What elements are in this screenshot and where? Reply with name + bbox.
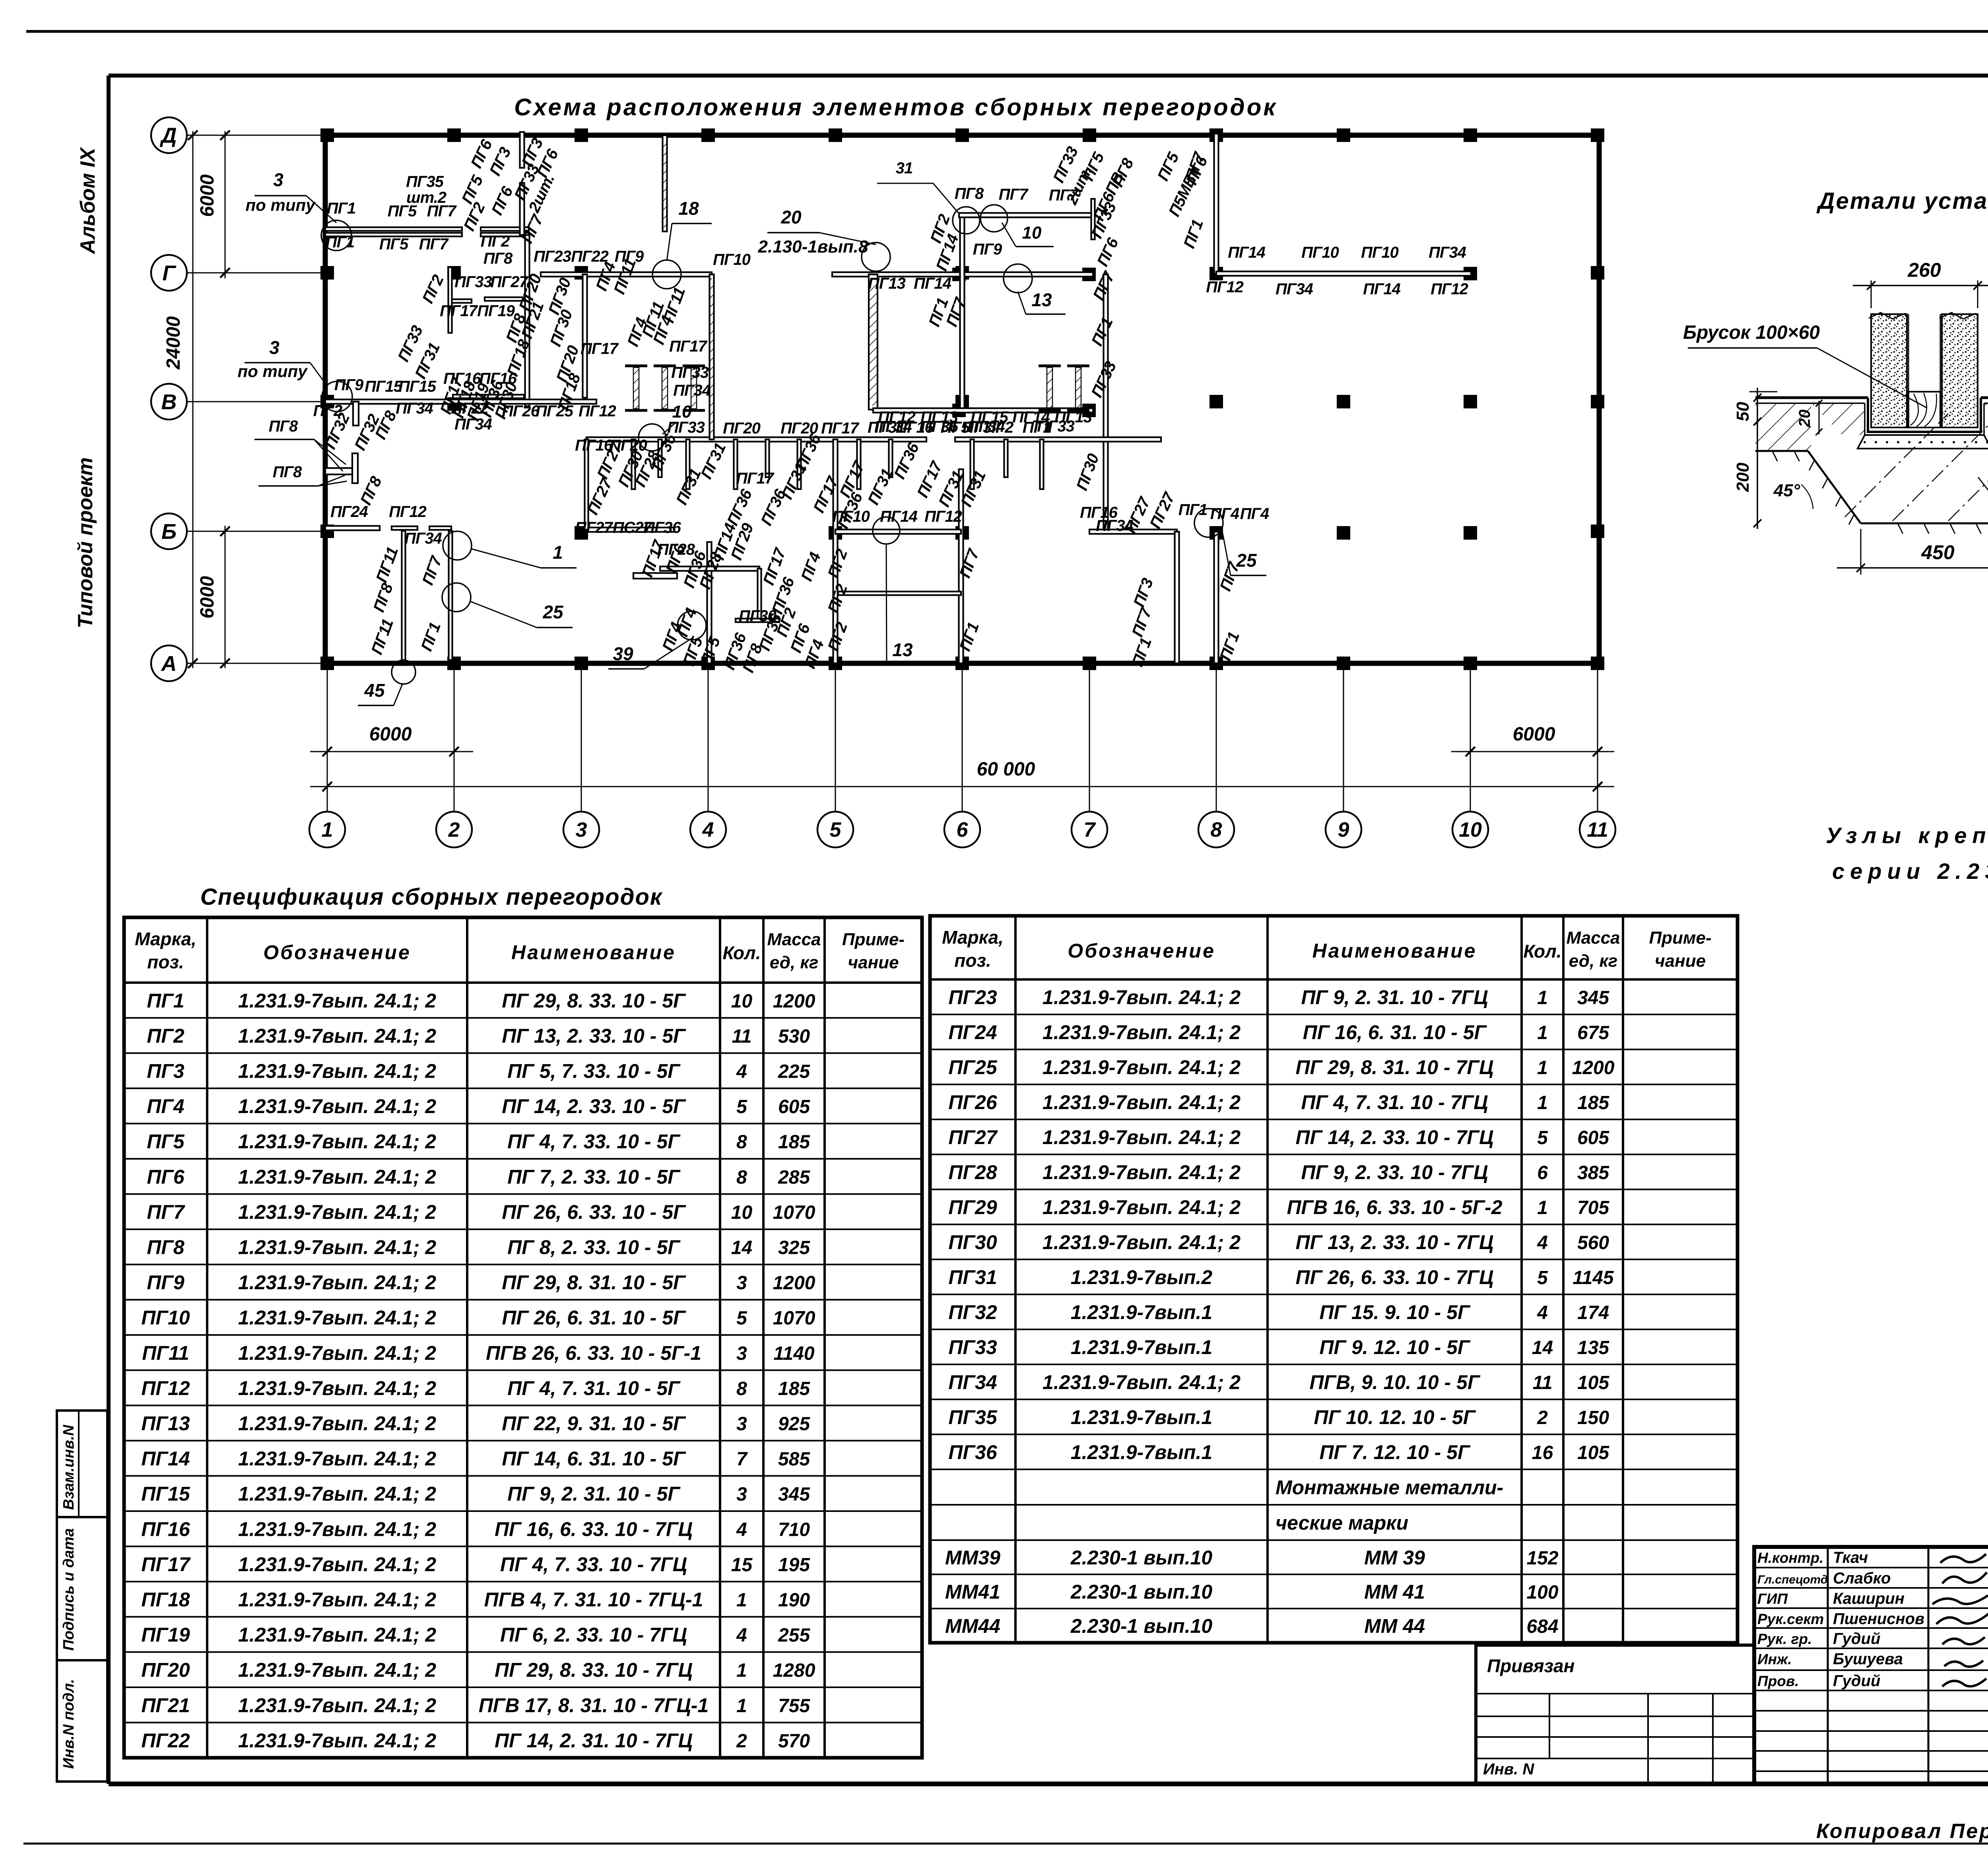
svg-text:ПГ14: ПГ14 xyxy=(1363,280,1401,298)
svg-text:Взам.инв.N: Взам.инв.N xyxy=(60,1424,77,1510)
svg-text:5: 5 xyxy=(1537,1127,1548,1148)
svg-text:ПГ27: ПГ27 xyxy=(948,1126,998,1148)
svg-text:ПГ23: ПГ23 xyxy=(534,248,571,265)
grid column circles 1..11 xyxy=(309,812,345,847)
svg-text:1.231.9-7вып. 24.1; 2: 1.231.9-7вып. 24.1; 2 xyxy=(238,1131,436,1153)
svg-text:ПГ8: ПГ8 xyxy=(147,1236,184,1259)
svg-text:1.231.9-7вып. 24.1; 2: 1.231.9-7вып. 24.1; 2 xyxy=(238,1483,436,1505)
svg-text:285: 285 xyxy=(778,1167,810,1188)
svg-text:7: 7 xyxy=(736,1449,748,1470)
svg-text:ПГ31: ПГ31 xyxy=(948,1266,997,1288)
svg-text:Альбом IX: Альбом IX xyxy=(76,146,99,255)
svg-text:Пров.: Пров. xyxy=(1757,1673,1799,1689)
svg-text:ПГ 7. 12. 10 - 5Г: ПГ 7. 12. 10 - 5Г xyxy=(1319,1441,1470,1463)
svg-text:шт.2: шт.2 xyxy=(406,189,447,206)
svg-text:1200: 1200 xyxy=(773,1273,815,1294)
svg-text:ПГ33: ПГ33 xyxy=(667,419,705,436)
svg-text:1.231.9-7вып. 24.1; 2: 1.231.9-7вып. 24.1; 2 xyxy=(238,1729,436,1752)
svg-text:ПГ12: ПГ12 xyxy=(1206,278,1244,296)
margin box: Инв.N подл. xyxy=(57,1660,107,1782)
svg-text:1: 1 xyxy=(1537,987,1548,1008)
svg-text:1.231.9-7вып.1: 1.231.9-7вып.1 xyxy=(1071,1441,1212,1463)
svg-text:ПГ7: ПГ7 xyxy=(419,235,449,253)
grid row extension lines xyxy=(187,135,325,136)
svg-text:13: 13 xyxy=(1031,289,1052,310)
svg-text:ПГ 14, 2. 33. 10 - 7ГЦ: ПГ 14, 2. 33. 10 - 7ГЦ xyxy=(1296,1126,1494,1148)
svg-text:ПГ 13, 2. 33. 10 - 7ГЦ: ПГ 13, 2. 33. 10 - 7ГЦ xyxy=(1296,1231,1494,1253)
svg-text:1.231.9-7вып. 24.1; 2: 1.231.9-7вып. 24.1; 2 xyxy=(238,1413,436,1435)
svg-text:ПГ12: ПГ12 xyxy=(141,1377,190,1399)
svg-text:ПГ9: ПГ9 xyxy=(973,241,1002,258)
svg-text:3: 3 xyxy=(736,1484,747,1505)
svg-text:ПГ28: ПГ28 xyxy=(948,1161,997,1183)
svg-text:8: 8 xyxy=(736,1132,747,1153)
svg-text:ПГ34: ПГ34 xyxy=(948,1371,997,1393)
svg-text:100: 100 xyxy=(1526,1582,1558,1603)
svg-text:6000: 6000 xyxy=(197,576,218,618)
svg-text:1140: 1140 xyxy=(773,1343,815,1364)
svg-text:ПГ29: ПГ29 xyxy=(948,1196,997,1218)
svg-text:Инж.: Инж. xyxy=(1757,1651,1792,1667)
svg-text:ПГ12: ПГ12 xyxy=(924,508,962,525)
svg-text:ческие марки: ческие марки xyxy=(1276,1512,1408,1534)
svg-text:ПГ12: ПГ12 xyxy=(1431,280,1468,298)
svg-text:ПГ 4, 7. 33. 10 - 5Г: ПГ 4, 7. 33. 10 - 5Г xyxy=(507,1131,681,1153)
svg-text:ПГ10: ПГ10 xyxy=(713,251,751,268)
svg-text:ПГ 29, 8. 31. 10 - 5Г: ПГ 29, 8. 31. 10 - 5Г xyxy=(502,1271,686,1294)
svg-text:ПГ1: ПГ1 xyxy=(147,989,184,1012)
svg-text:Бушуева: Бушуева xyxy=(1833,1650,1903,1668)
svg-text:11: 11 xyxy=(1587,818,1608,841)
svg-text:185: 185 xyxy=(778,1132,810,1153)
svg-text:ПГ4: ПГ4 xyxy=(147,1095,184,1117)
svg-text:Обозначение: Обозначение xyxy=(263,941,411,964)
svg-text:585: 585 xyxy=(778,1449,810,1470)
specification table 2 (PG23..MM44) xyxy=(930,916,1738,1643)
svg-text:6000: 6000 xyxy=(369,724,412,745)
bottom dimension 6000 (10-11) xyxy=(1451,751,1614,752)
svg-text:ГИП: ГИП xyxy=(1757,1591,1788,1607)
svg-text:105: 105 xyxy=(1577,1372,1609,1393)
svg-text:ПГ32: ПГ32 xyxy=(948,1301,997,1323)
svg-text:ПГ 26, 6. 33. 10 - 7ГЦ: ПГ 26, 6. 33. 10 - 7ГЦ xyxy=(1296,1266,1494,1288)
svg-text:Схема расположения элементов с: Схема расположения элементов сборных пер… xyxy=(514,94,1277,120)
svg-text:3: 3 xyxy=(273,169,283,190)
svg-text:Обозначение: Обозначение xyxy=(1068,940,1215,962)
svg-text:ПГ10: ПГ10 xyxy=(1301,244,1339,261)
svg-text:1.231.9-7вып. 24.1; 2: 1.231.9-7вып. 24.1; 2 xyxy=(238,1518,436,1540)
svg-text:1.231.9-7вып.1: 1.231.9-7вып.1 xyxy=(1071,1406,1212,1428)
svg-text:ММ 41: ММ 41 xyxy=(1364,1581,1425,1603)
svg-text:1.231.9-7вып. 24.1; 2: 1.231.9-7вып. 24.1; 2 xyxy=(1043,986,1241,1008)
svg-text:Типовой проект: Типовой проект xyxy=(74,457,97,628)
svg-text:200: 200 xyxy=(1733,462,1753,492)
svg-text:16: 16 xyxy=(1532,1442,1553,1463)
svg-text:1.231.9-7вып. 24.1; 2: 1.231.9-7вып. 24.1; 2 xyxy=(1043,1231,1241,1253)
svg-text:11: 11 xyxy=(1533,1372,1553,1393)
I-beam partition symbols xyxy=(625,365,647,367)
svg-text:5: 5 xyxy=(736,1096,747,1117)
svg-text:Копировал Перелыгина: Копировал Перелыгина xyxy=(1816,1820,1988,1843)
detail 1: partition on ground floor, 260 wide xyxy=(1733,259,1988,575)
svg-text:ПГ13: ПГ13 xyxy=(141,1413,190,1435)
svg-text:1: 1 xyxy=(553,542,563,563)
svg-text:ПГВ, 9. 10. 10 - 5Г: ПГВ, 9. 10. 10 - 5Г xyxy=(1309,1371,1480,1393)
svg-text:ПГ9: ПГ9 xyxy=(334,376,364,394)
svg-text:ПГ8: ПГ8 xyxy=(273,463,302,481)
svg-text:1.231.9-7вып. 24.1; 2: 1.231.9-7вып. 24.1; 2 xyxy=(1043,1126,1241,1148)
svg-text:1: 1 xyxy=(1537,1092,1548,1113)
svg-text:ПГ9: ПГ9 xyxy=(147,1271,184,1294)
svg-text:1070: 1070 xyxy=(773,1308,815,1329)
svg-text:385: 385 xyxy=(1577,1162,1609,1183)
svg-text:ММ 39: ММ 39 xyxy=(1364,1547,1425,1569)
svg-text:5: 5 xyxy=(736,1308,747,1329)
svg-text:Гудий: Гудий xyxy=(1833,1630,1880,1648)
svg-text:225: 225 xyxy=(778,1061,810,1082)
svg-text:1.231.9-7вып. 24.1; 2: 1.231.9-7вып. 24.1; 2 xyxy=(238,1624,436,1646)
svg-text:ПГ5: ПГ5 xyxy=(147,1131,185,1153)
svg-text:185: 185 xyxy=(1577,1092,1609,1113)
svg-text:ПГ33: ПГ33 xyxy=(1037,418,1075,435)
svg-text:ПГ 16, 6. 31. 10 - 5Г: ПГ 16, 6. 31. 10 - 5Г xyxy=(1303,1021,1487,1043)
svg-text:ПГ17: ПГ17 xyxy=(440,302,478,320)
svg-text:152: 152 xyxy=(1526,1548,1558,1569)
svg-text:Масса: Масса xyxy=(767,930,821,949)
svg-text:ПГ 29, 8. 33. 10 - 5Г: ПГ 29, 8. 33. 10 - 5Г xyxy=(502,989,686,1012)
svg-text:1.231.9-7вып. 24.1; 2: 1.231.9-7вып. 24.1; 2 xyxy=(1043,1091,1241,1113)
svg-text:24000: 24000 xyxy=(163,316,184,370)
svg-text:ПГ20: ПГ20 xyxy=(141,1659,190,1681)
tie-in box (Привязан) xyxy=(1476,1645,1754,1784)
svg-text:ПГ4: ПГ4 xyxy=(1210,505,1239,523)
svg-text:ПГ 4, 7. 31. 10 - 5Г: ПГ 4, 7. 31. 10 - 5Г xyxy=(507,1377,681,1399)
svg-text:6000: 6000 xyxy=(197,174,218,217)
svg-text:ПГ4: ПГ4 xyxy=(1240,505,1269,523)
svg-text:чание: чание xyxy=(848,953,899,972)
svg-text:190: 190 xyxy=(778,1590,810,1611)
svg-text:605: 605 xyxy=(778,1096,810,1117)
svg-text:ПГ33: ПГ33 xyxy=(671,364,709,381)
svg-text:ПГ34: ПГ34 xyxy=(404,530,442,547)
svg-text:ПГ17: ПГ17 xyxy=(669,338,708,355)
svg-text:135: 135 xyxy=(1577,1337,1609,1358)
svg-text:ПГ35: ПГ35 xyxy=(948,1406,997,1428)
svg-text:ММ39: ММ39 xyxy=(945,1547,1000,1569)
sheet top edge line xyxy=(26,30,1988,33)
svg-text:ПГВ 26, 6. 33. 10 - 5Г-1: ПГВ 26, 6. 33. 10 - 5Г-1 xyxy=(486,1342,701,1364)
svg-text:ПГ17: ПГ17 xyxy=(141,1553,190,1576)
svg-text:ПГ6: ПГ6 xyxy=(147,1166,185,1188)
svg-text:Кол.: Кол. xyxy=(722,942,761,963)
svg-text:Г: Г xyxy=(162,261,177,285)
margin box: Подпись и дата xyxy=(57,1517,107,1660)
svg-text:10: 10 xyxy=(1459,818,1482,841)
bottom dimension 60000 overall xyxy=(310,786,1614,787)
svg-text:2: 2 xyxy=(736,1731,747,1752)
svg-text:ПГ 8, 2. 33. 10 - 5Г: ПГ 8, 2. 33. 10 - 5Г xyxy=(507,1236,681,1259)
svg-text:ПГ8: ПГ8 xyxy=(269,418,298,435)
svg-text:1145: 1145 xyxy=(1573,1267,1614,1288)
svg-text:ПГ 13, 2. 33. 10 - 5Г: ПГ 13, 2. 33. 10 - 5Г xyxy=(502,1025,686,1047)
svg-text:ПГ 26, 6. 31. 10 - 5Г: ПГ 26, 6. 31. 10 - 5Г xyxy=(502,1307,686,1329)
svg-text:1.231.9-7вып.1: 1.231.9-7вып.1 xyxy=(1071,1336,1212,1358)
svg-text:18: 18 xyxy=(678,198,699,219)
svg-text:Д: Д xyxy=(160,124,177,148)
svg-text:Наименование: Наименование xyxy=(1312,940,1477,962)
left dimension chain 6000/24000 xyxy=(225,131,226,278)
svg-text:1: 1 xyxy=(1537,1197,1548,1218)
svg-text:ПГ12: ПГ12 xyxy=(389,503,427,521)
svg-text:ПГ15: ПГ15 xyxy=(141,1483,190,1505)
svg-text:поз.: поз. xyxy=(147,952,184,972)
svg-text:Брусок 100×60: Брусок 100×60 xyxy=(1683,322,1820,343)
svg-text:14: 14 xyxy=(1532,1337,1553,1358)
svg-text:45°: 45° xyxy=(1773,481,1800,500)
svg-text:Наименование: Наименование xyxy=(511,941,676,964)
svg-text:14: 14 xyxy=(731,1238,752,1259)
svg-text:ПГ35: ПГ35 xyxy=(406,173,444,190)
svg-text:ПГ2: ПГ2 xyxy=(481,233,510,250)
svg-text:ПГ3: ПГ3 xyxy=(147,1060,184,1082)
svg-text:710: 710 xyxy=(778,1519,810,1540)
svg-text:20: 20 xyxy=(1796,410,1813,428)
svg-text:1.231.9-7вып. 24.1; 2: 1.231.9-7вып. 24.1; 2 xyxy=(238,1307,436,1329)
svg-text:Гудий: Гудий xyxy=(1833,1672,1880,1690)
svg-text:ПГ10: ПГ10 xyxy=(1361,244,1399,261)
svg-text:925: 925 xyxy=(778,1414,810,1435)
svg-text:13: 13 xyxy=(892,639,913,660)
svg-text:1: 1 xyxy=(736,1590,747,1611)
svg-text:ПГ 29, 8. 31. 10 - 7ГЦ: ПГ 29, 8. 31. 10 - 7ГЦ xyxy=(1296,1056,1494,1078)
svg-text:1.231.9-7вып. 24.1; 2: 1.231.9-7вып. 24.1; 2 xyxy=(238,1095,436,1117)
svg-text:60 000: 60 000 xyxy=(977,759,1035,780)
svg-text:1.231.9-7вып.1: 1.231.9-7вып.1 xyxy=(1071,1301,1212,1323)
svg-text:1.231.9-7вып. 24.1; 2: 1.231.9-7вып. 24.1; 2 xyxy=(238,1271,436,1294)
svg-text:ед, кг: ед, кг xyxy=(770,953,818,972)
svg-text:ПГ26: ПГ26 xyxy=(948,1091,997,1113)
svg-text:ПГ24: ПГ24 xyxy=(330,503,368,521)
svg-text:6: 6 xyxy=(957,818,969,841)
svg-text:ПГ 9. 12. 10 - 5Г: ПГ 9. 12. 10 - 5Г xyxy=(1319,1336,1470,1358)
svg-text:ПГ1: ПГ1 xyxy=(327,200,356,217)
svg-text:ПГ 6, 2. 33. 10 - 7ГЦ: ПГ 6, 2. 33. 10 - 7ГЦ xyxy=(500,1624,687,1646)
svg-text:Ткач: Ткач xyxy=(1833,1549,1868,1566)
leader fans for PG8 labels xyxy=(254,439,314,440)
svg-text:ПГ26: ПГ26 xyxy=(502,402,540,420)
svg-text:ПГ30: ПГ30 xyxy=(948,1231,997,1253)
svg-text:755: 755 xyxy=(778,1695,810,1716)
svg-text:1: 1 xyxy=(736,1695,747,1716)
svg-text:4: 4 xyxy=(1537,1302,1548,1323)
svg-text:4: 4 xyxy=(736,1519,747,1540)
svg-text:1280: 1280 xyxy=(773,1660,815,1681)
svg-text:1.231.9-7вып. 24.1; 2: 1.231.9-7вып. 24.1; 2 xyxy=(238,1377,436,1399)
svg-text:Узлы крепления перегородок при: Узлы крепления перегородок приняты по xyxy=(1826,823,1988,848)
signatures (squiggles) xyxy=(1940,1554,1986,1563)
svg-text:Рук.сект: Рук.сект xyxy=(1757,1611,1824,1627)
sheet bottom edge line xyxy=(23,1843,1988,1845)
hatched wall faces xyxy=(709,278,714,435)
specification table 1 (PG1..PG22) xyxy=(124,917,922,1758)
svg-text:1070: 1070 xyxy=(773,1202,815,1223)
svg-text:ПГ13: ПГ13 xyxy=(868,275,906,292)
svg-text:ПГ17: ПГ17 xyxy=(580,340,619,358)
svg-text:1.231.9-7вып. 24.1; 2: 1.231.9-7вып. 24.1; 2 xyxy=(238,1447,436,1470)
svg-text:ПГ 14, 2. 33. 10 - 5Г: ПГ 14, 2. 33. 10 - 5Г xyxy=(502,1095,686,1117)
title block (stamp) xyxy=(1754,1547,1988,1784)
svg-text:2.230-1 вып.10: 2.230-1 вып.10 xyxy=(1070,1615,1213,1637)
svg-text:ПГ15: ПГ15 xyxy=(398,378,437,395)
svg-text:684: 684 xyxy=(1526,1616,1558,1637)
svg-text:260: 260 xyxy=(1907,259,1941,281)
svg-text:Рук. гр.: Рук. гр. xyxy=(1757,1631,1812,1647)
svg-text:ПГ36: ПГ36 xyxy=(948,1441,997,1463)
svg-text:345: 345 xyxy=(1577,987,1609,1008)
column extension lines to bottom grid circles xyxy=(327,663,328,812)
svg-text:Слабко: Слабко xyxy=(1833,1570,1891,1587)
svg-text:ПГ16: ПГ16 xyxy=(896,419,934,436)
svg-text:Приме-: Приме- xyxy=(842,930,905,949)
svg-text:ПГ16: ПГ16 xyxy=(141,1518,190,1540)
svg-text:чание: чание xyxy=(1655,951,1706,971)
svg-text:ПГ14: ПГ14 xyxy=(1228,244,1266,261)
svg-text:ПГ12: ПГ12 xyxy=(579,402,616,420)
svg-text:3: 3 xyxy=(576,818,587,841)
svg-text:ПГ 16, 6. 33. 10 - 7ГЦ: ПГ 16, 6. 33. 10 - 7ГЦ xyxy=(495,1518,693,1540)
svg-text:ПГ 22, 9. 31. 10 - 5Г: ПГ 22, 9. 31. 10 - 5Г xyxy=(502,1413,686,1435)
svg-text:ПГ34: ПГ34 xyxy=(673,382,711,399)
svg-text:1.231.9-7вып. 24.1; 2: 1.231.9-7вып. 24.1; 2 xyxy=(238,1589,436,1611)
svg-text:ПГ20: ПГ20 xyxy=(610,437,647,454)
svg-text:50: 50 xyxy=(1733,402,1753,421)
svg-text:10: 10 xyxy=(731,991,753,1012)
svg-text:1.231.9-7вып. 24.1; 2: 1.231.9-7вып. 24.1; 2 xyxy=(238,1166,436,1188)
svg-text:В: В xyxy=(161,390,177,414)
svg-text:Б: Б xyxy=(161,520,177,544)
svg-text:Монтажные металли-: Монтажные металли- xyxy=(1276,1477,1503,1499)
svg-text:Пшениснов: Пшениснов xyxy=(1833,1610,1924,1628)
svg-text:ПГ 9, 2. 33. 10 - 7ГЦ: ПГ 9, 2. 33. 10 - 7ГЦ xyxy=(1301,1161,1488,1183)
svg-text:3: 3 xyxy=(736,1343,747,1364)
svg-text:ПГ11: ПГ11 xyxy=(142,1342,189,1364)
svg-text:ПГ 10. 12. 10 - 5Г: ПГ 10. 12. 10 - 5Г xyxy=(1314,1406,1476,1428)
svg-text:25: 25 xyxy=(542,602,564,622)
svg-text:ПГ34: ПГ34 xyxy=(1276,280,1313,298)
svg-text:105: 105 xyxy=(1577,1442,1609,1463)
svg-text:ПГ19: ПГ19 xyxy=(477,302,515,320)
svg-text:ПГ10: ПГ10 xyxy=(832,508,870,525)
svg-text:705: 705 xyxy=(1577,1197,1609,1218)
svg-text:ПГ17: ПГ17 xyxy=(821,420,860,437)
svg-text:4: 4 xyxy=(736,1625,747,1646)
svg-text:1.231.9-7вып. 24.1; 2: 1.231.9-7вып. 24.1; 2 xyxy=(238,1060,436,1082)
svg-text:Масса: Масса xyxy=(1566,928,1620,948)
svg-text:2: 2 xyxy=(1537,1407,1548,1428)
svg-text:ПГ25: ПГ25 xyxy=(948,1056,997,1078)
svg-text:ПГ 14, 2. 31. 10 - 7ГЦ: ПГ 14, 2. 31. 10 - 7ГЦ xyxy=(495,1729,693,1752)
svg-text:ПГ27: ПГ27 xyxy=(490,273,529,291)
svg-text:ПГ14: ПГ14 xyxy=(914,275,951,292)
svg-text:ПГ1: ПГ1 xyxy=(326,233,355,251)
svg-text:Марка,: Марка, xyxy=(135,929,196,949)
plan exterior walls xyxy=(325,135,1599,663)
svg-text:ММ44: ММ44 xyxy=(945,1615,1000,1637)
svg-text:1: 1 xyxy=(736,1660,747,1681)
svg-text:675: 675 xyxy=(1577,1022,1609,1043)
svg-text:3: 3 xyxy=(269,337,280,358)
svg-text:560: 560 xyxy=(1577,1232,1609,1253)
svg-text:5: 5 xyxy=(830,818,842,841)
svg-text:325: 325 xyxy=(778,1238,810,1259)
svg-text:1.231.9-7вып. 24.1; 2: 1.231.9-7вып. 24.1; 2 xyxy=(1043,1161,1241,1183)
svg-text:31: 31 xyxy=(896,159,913,177)
svg-text:3: 3 xyxy=(736,1273,747,1294)
svg-text:ПГ21: ПГ21 xyxy=(141,1694,190,1716)
svg-text:ПГ34: ПГ34 xyxy=(454,416,492,433)
svg-text:ПГВ 17, 8. 31. 10 - 7ГЦ-1: ПГВ 17, 8. 31. 10 - 7ГЦ-1 xyxy=(479,1694,709,1716)
svg-text:ПГ 9, 2. 31. 10 - 7ГЦ: ПГ 9, 2. 31. 10 - 7ГЦ xyxy=(1301,986,1488,1008)
svg-text:ПГ10: ПГ10 xyxy=(141,1307,190,1329)
svg-text:174: 174 xyxy=(1577,1302,1609,1323)
svg-text:7: 7 xyxy=(1084,818,1096,841)
margin box: Взам.инв.N xyxy=(57,1411,107,1517)
svg-text:1200: 1200 xyxy=(773,991,815,1012)
svg-text:Каширин: Каширин xyxy=(1833,1590,1905,1607)
svg-text:Детали установки гипсобетонных: Детали установки гипсобетонных перегород… xyxy=(1816,188,1988,214)
svg-text:2.230-1 вып.10: 2.230-1 вып.10 xyxy=(1070,1547,1213,1569)
svg-text:ПГ5: ПГ5 xyxy=(379,235,409,253)
svg-text:ПГ14: ПГ14 xyxy=(141,1447,190,1470)
svg-text:ПГ15: ПГ15 xyxy=(365,378,403,395)
svg-text:195: 195 xyxy=(778,1554,810,1576)
svg-text:450: 450 xyxy=(1921,541,1955,563)
svg-text:20: 20 xyxy=(780,207,802,227)
svg-text:Н.контр.: Н.контр. xyxy=(1757,1550,1823,1566)
svg-text:6: 6 xyxy=(1537,1162,1548,1183)
svg-text:6000: 6000 xyxy=(1513,724,1555,745)
svg-text:1200: 1200 xyxy=(1572,1057,1615,1078)
svg-text:185: 185 xyxy=(778,1378,810,1399)
leader balloons xyxy=(322,381,352,412)
svg-text:по типу: по типу xyxy=(238,362,309,381)
svg-text:ПГ 14, 6. 31. 10 - 5Г: ПГ 14, 6. 31. 10 - 5Г xyxy=(502,1447,686,1470)
svg-text:45: 45 xyxy=(364,680,385,701)
svg-text:39: 39 xyxy=(613,643,633,664)
svg-text:1.231.9-7вып. 24.1; 2: 1.231.9-7вып. 24.1; 2 xyxy=(1043,1196,1241,1218)
svg-text:ПГ36: ПГ36 xyxy=(643,519,681,536)
svg-text:4: 4 xyxy=(1537,1232,1548,1253)
svg-text:ПГВ 4, 7. 31. 10 - 7ГЦ-1: ПГВ 4, 7. 31. 10 - 7ГЦ-1 xyxy=(484,1589,703,1611)
svg-text:ПГВ 16, 6. 33. 10 - 5Г-2: ПГВ 16, 6. 33. 10 - 5Г-2 xyxy=(1287,1196,1502,1218)
svg-text:1.231.9-7вып. 24.1; 2: 1.231.9-7вып. 24.1; 2 xyxy=(1043,1371,1241,1393)
svg-text:ПГ16: ПГ16 xyxy=(575,437,613,454)
svg-text:1.231.9-7вып. 24.1; 2: 1.231.9-7вып. 24.1; 2 xyxy=(1043,1021,1241,1043)
svg-text:8: 8 xyxy=(736,1378,747,1399)
svg-text:570: 570 xyxy=(778,1731,810,1752)
svg-text:8: 8 xyxy=(1211,818,1222,841)
extra partition stubs (dense middle) xyxy=(585,439,588,530)
svg-text:ПГ33: ПГ33 xyxy=(948,1336,997,1358)
svg-text:345: 345 xyxy=(778,1484,810,1505)
svg-text:150: 150 xyxy=(1577,1407,1609,1428)
svg-text:ПГ22: ПГ22 xyxy=(451,400,489,417)
svg-text:ПГ19: ПГ19 xyxy=(141,1624,190,1646)
svg-text:ПГ7: ПГ7 xyxy=(147,1201,185,1223)
svg-text:ПГ27: ПГ27 xyxy=(575,519,613,536)
svg-text:серии 2.230-1 вып. 10.: серии 2.230-1 вып. 10. xyxy=(1832,859,1988,884)
svg-text:1.231.9-7вып. 24.1; 2: 1.231.9-7вып. 24.1; 2 xyxy=(238,989,436,1012)
